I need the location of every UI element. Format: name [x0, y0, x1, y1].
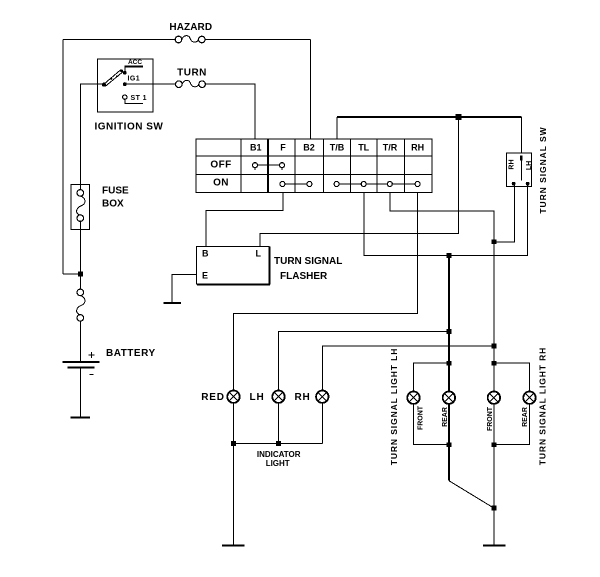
- svg-text:TURN SIGNAL LIGHT LH: TURN SIGNAL LIGHT LH: [389, 348, 399, 465]
- svg-text:ON: ON: [213, 177, 229, 188]
- svg-text:F: F: [280, 142, 286, 152]
- wire hazard feed vertical from battery junction: [62, 40, 64, 275]
- svg-text:TURN SIGNAL SW: TURN SIGNAL SW: [538, 126, 548, 213]
- wire indicator common line: [234, 443, 323, 445]
- label REAR (LH, rotated): [442, 407, 449, 427]
- switch contact RH: [512, 182, 516, 186]
- contacts ON row F-B2: [280, 182, 312, 187]
- label FUSE BOX: [102, 186, 129, 210]
- svg-text:BATTERY: BATTERY: [106, 348, 156, 359]
- label IG1: [128, 76, 140, 83]
- battery BT1: [62, 352, 99, 375]
- svg-text:FRONT: FRONT: [487, 406, 494, 431]
- wire battery to ground: [80, 369, 82, 418]
- junction RH lamps bottom: [492, 442, 497, 447]
- wire fuse box to junction: [80, 221, 82, 275]
- label HAZARD: [169, 22, 212, 33]
- lamp LH FRONT: [407, 392, 419, 404]
- svg-text:B: B: [202, 249, 209, 259]
- fuse box rectangle: [71, 184, 89, 229]
- svg-text:TURN SIGNAL LIGHT RH: TURN SIGNAL LIGHT RH: [538, 347, 548, 465]
- terminal IG1 contact dot: [123, 82, 127, 86]
- label TURN: [177, 68, 207, 79]
- wire IG1 out to TURN fuse: [125, 83, 176, 85]
- lamp RH REAR: [523, 392, 535, 404]
- pin label RH (rotated): [509, 159, 516, 169]
- pin label T/R: [383, 142, 398, 152]
- wire RH indicator tap: [322, 346, 494, 390]
- svg-text:TL: TL: [358, 142, 369, 152]
- label ACC: [128, 59, 142, 66]
- fuse HAZARD: [175, 36, 205, 43]
- pin label B2: [303, 142, 315, 152]
- wire thick LH lamps feed: [448, 256, 450, 481]
- pin label T/B: [330, 142, 345, 152]
- hazard switch contact table: [196, 139, 432, 192]
- fuse TURN: [176, 80, 206, 87]
- turn signal switch box: [506, 153, 531, 186]
- junction LH indicator tap: [447, 329, 452, 334]
- wire RH feed lamp bottom continue: [493, 404, 495, 545]
- junction RH indicator tap: [492, 344, 497, 349]
- label RH: [294, 392, 310, 403]
- wire diagonal LH feed to right ground line: [449, 481, 494, 508]
- switch lever blade: [102, 70, 123, 87]
- label TURN SIGNAL FLASHER: [274, 256, 342, 282]
- ignition switch SW1 box: [98, 59, 153, 112]
- wire RH rear branch: [494, 363, 530, 391]
- junction bus node: [455, 114, 461, 120]
- wire junction to main fuse: [80, 274, 82, 290]
- ground battery: [70, 416, 90, 418]
- lamp RH FRONT: [488, 392, 500, 404]
- svg-text:IG1: IG1: [128, 76, 140, 83]
- wire LH indicator tap: [279, 332, 449, 391]
- label TURN SIGNAL LIGHT LH (rotated): [389, 348, 399, 465]
- svg-text:E: E: [202, 271, 208, 281]
- contacts ON row T/B-TL-T/R-RH: [334, 182, 420, 187]
- junction indicator RED node: [231, 441, 236, 446]
- wire LH front lamp bottom link: [414, 404, 449, 445]
- svg-text:REAR: REAR: [522, 407, 529, 427]
- pin label LH (rotated): [526, 161, 533, 170]
- wire hazard horizontal right segment to B2: [205, 39, 311, 41]
- svg-text:ST 1: ST 1: [131, 95, 147, 102]
- label REAR (RH, rotated): [522, 407, 529, 427]
- terminal ACC bar: [123, 66, 143, 74]
- svg-text:BOX: BOX: [102, 199, 124, 210]
- svg-text:INDICATOR: INDICATOR: [257, 450, 301, 459]
- svg-text:FRONT: FRONT: [418, 405, 425, 430]
- junction diagonal to ground line: [492, 506, 497, 511]
- svg-text:IGNITION SW: IGNITION SW: [95, 122, 164, 133]
- svg-text:ACC: ACC: [128, 59, 142, 66]
- wire B2 drop to table: [310, 40, 312, 140]
- switch contact LH: [526, 182, 530, 186]
- wire flasher E to ground: [172, 274, 197, 303]
- wire LH lamp to junction line: [278, 403, 280, 443]
- pin label TL: [358, 142, 369, 152]
- svg-text:LH: LH: [250, 392, 265, 403]
- svg-text:RED: RED: [201, 392, 225, 403]
- label LH: [250, 392, 265, 403]
- contacts OFF row B1-F: [253, 163, 285, 171]
- fuse main (battery): [77, 289, 85, 321]
- svg-text:L: L: [256, 249, 262, 259]
- label RED: [201, 392, 225, 403]
- svg-text:RH: RH: [294, 392, 310, 403]
- label ST 1: [131, 95, 147, 102]
- junction LH lamps bottom: [447, 442, 452, 447]
- svg-text:TURN: TURN: [177, 68, 207, 79]
- switch pole pin: [520, 155, 522, 180]
- label OFF: [210, 159, 231, 170]
- ground right lamps: [483, 544, 505, 546]
- wire TURN to B1: [205, 84, 255, 139]
- lamp LH indicator: [272, 391, 284, 403]
- wire TL output to switch LH contact: [364, 184, 528, 256]
- svg-text:OFF: OFF: [210, 159, 231, 170]
- pin label B1: [250, 142, 262, 152]
- turn signal flasher box: [197, 247, 271, 285]
- svg-text:REAR: REAR: [442, 407, 449, 427]
- junction RH rear tap: [492, 361, 497, 366]
- ground indicator lamps: [222, 544, 245, 546]
- label TURN SIGNAL SW (rotated): [538, 126, 548, 213]
- svg-text:LH: LH: [526, 161, 533, 170]
- wire RH rear lamp bottom link: [494, 404, 530, 445]
- ground flasher: [164, 302, 181, 304]
- junction indicator LH node: [276, 441, 281, 446]
- wire thick bus T/B to turn signal switch: [337, 117, 522, 153]
- wire RH column output to RED indicator: [234, 193, 418, 391]
- pin label F: [280, 142, 286, 152]
- label FRONT (RH, rotated): [487, 406, 494, 431]
- svg-text:RH: RH: [411, 142, 424, 152]
- svg-text:FUSE: FUSE: [102, 186, 129, 197]
- wire RH lamp to junction line: [321, 403, 323, 443]
- wire RED lamp to ground: [233, 403, 235, 545]
- svg-text:FLASHER: FLASHER: [280, 271, 328, 282]
- svg-text:LIGHT: LIGHT: [266, 459, 290, 468]
- label TURN SIGNAL LIGHT RH (rotated): [538, 347, 548, 465]
- wire left feed elbow into junction: [63, 273, 81, 275]
- svg-text:B1: B1: [250, 142, 262, 152]
- wire fuse to battery: [80, 321, 82, 361]
- wire hazard horizontal left segment: [63, 39, 175, 41]
- label BATTERY: [106, 348, 156, 359]
- junction battery feed node: [78, 272, 83, 277]
- junction right feed / switch RH: [492, 239, 497, 244]
- svg-text:HAZARD: HAZARD: [169, 22, 212, 33]
- label IGNITION SW: [95, 122, 164, 133]
- wire flasher L to bus riser: [260, 117, 458, 247]
- lamp RED indicator: [227, 391, 239, 403]
- svg-text:B2: B2: [303, 142, 315, 152]
- wire F output to flasher B: [206, 193, 283, 247]
- terminal ST1: [123, 95, 144, 104]
- label FRONT (LH, rotated): [418, 405, 425, 430]
- wire T/R output to right lamps feed: [390, 193, 494, 392]
- pin label E: [202, 271, 208, 281]
- label INDICATOR LIGHT: [257, 450, 301, 468]
- wire ignition common to fuse box riser: [81, 84, 104, 190]
- wire LH front branch: [414, 363, 449, 391]
- pin label B: [202, 249, 209, 259]
- svg-text:TURN SIGNAL: TURN SIGNAL: [274, 256, 342, 267]
- svg-text:T/R: T/R: [383, 142, 398, 152]
- junction LH feed tap: [447, 253, 452, 258]
- lamp RH indicator: [316, 391, 328, 403]
- junction LH front tap: [447, 361, 452, 366]
- label ON: [213, 177, 229, 188]
- fuse inside fuse box: [77, 190, 85, 222]
- pin label RH: [411, 142, 424, 152]
- pin label L: [256, 249, 262, 259]
- lamp LH REAR: [443, 392, 455, 404]
- svg-text:T/B: T/B: [330, 142, 345, 152]
- wire switch RH contact to right feed: [494, 184, 514, 242]
- svg-text:RH: RH: [509, 159, 516, 169]
